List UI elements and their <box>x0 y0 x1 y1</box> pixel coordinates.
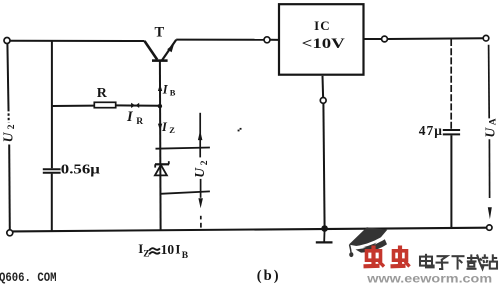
svg-text:www.eeworm.com: www.eeworm.com <box>366 273 492 285</box>
svg-text:B: B <box>182 251 189 261</box>
svg-text:<10V: <10V <box>302 36 346 52</box>
svg-text:I: I <box>175 242 180 257</box>
svg-text:Z: Z <box>169 125 175 135</box>
svg-text:2: 2 <box>7 124 17 129</box>
svg-text:47μ: 47μ <box>419 123 443 138</box>
svg-text:A: A <box>488 118 498 125</box>
svg-text:U: U <box>483 127 498 138</box>
svg-text:10: 10 <box>161 242 175 257</box>
svg-text:2: 2 <box>200 160 210 165</box>
svg-text:T: T <box>154 25 164 41</box>
svg-text:U: U <box>192 167 207 178</box>
svg-text:R: R <box>136 117 143 127</box>
svg-text:Q606. COM: Q606. COM <box>0 270 57 285</box>
svg-text:B: B <box>170 88 176 98</box>
svg-text:Z: Z <box>143 249 149 259</box>
svg-text:U: U <box>1 131 16 142</box>
svg-text:IC: IC <box>314 18 330 33</box>
svg-text:R: R <box>97 86 108 101</box>
svg-text:(b): (b) <box>257 268 281 284</box>
svg-text:0.56μ: 0.56μ <box>61 162 100 177</box>
